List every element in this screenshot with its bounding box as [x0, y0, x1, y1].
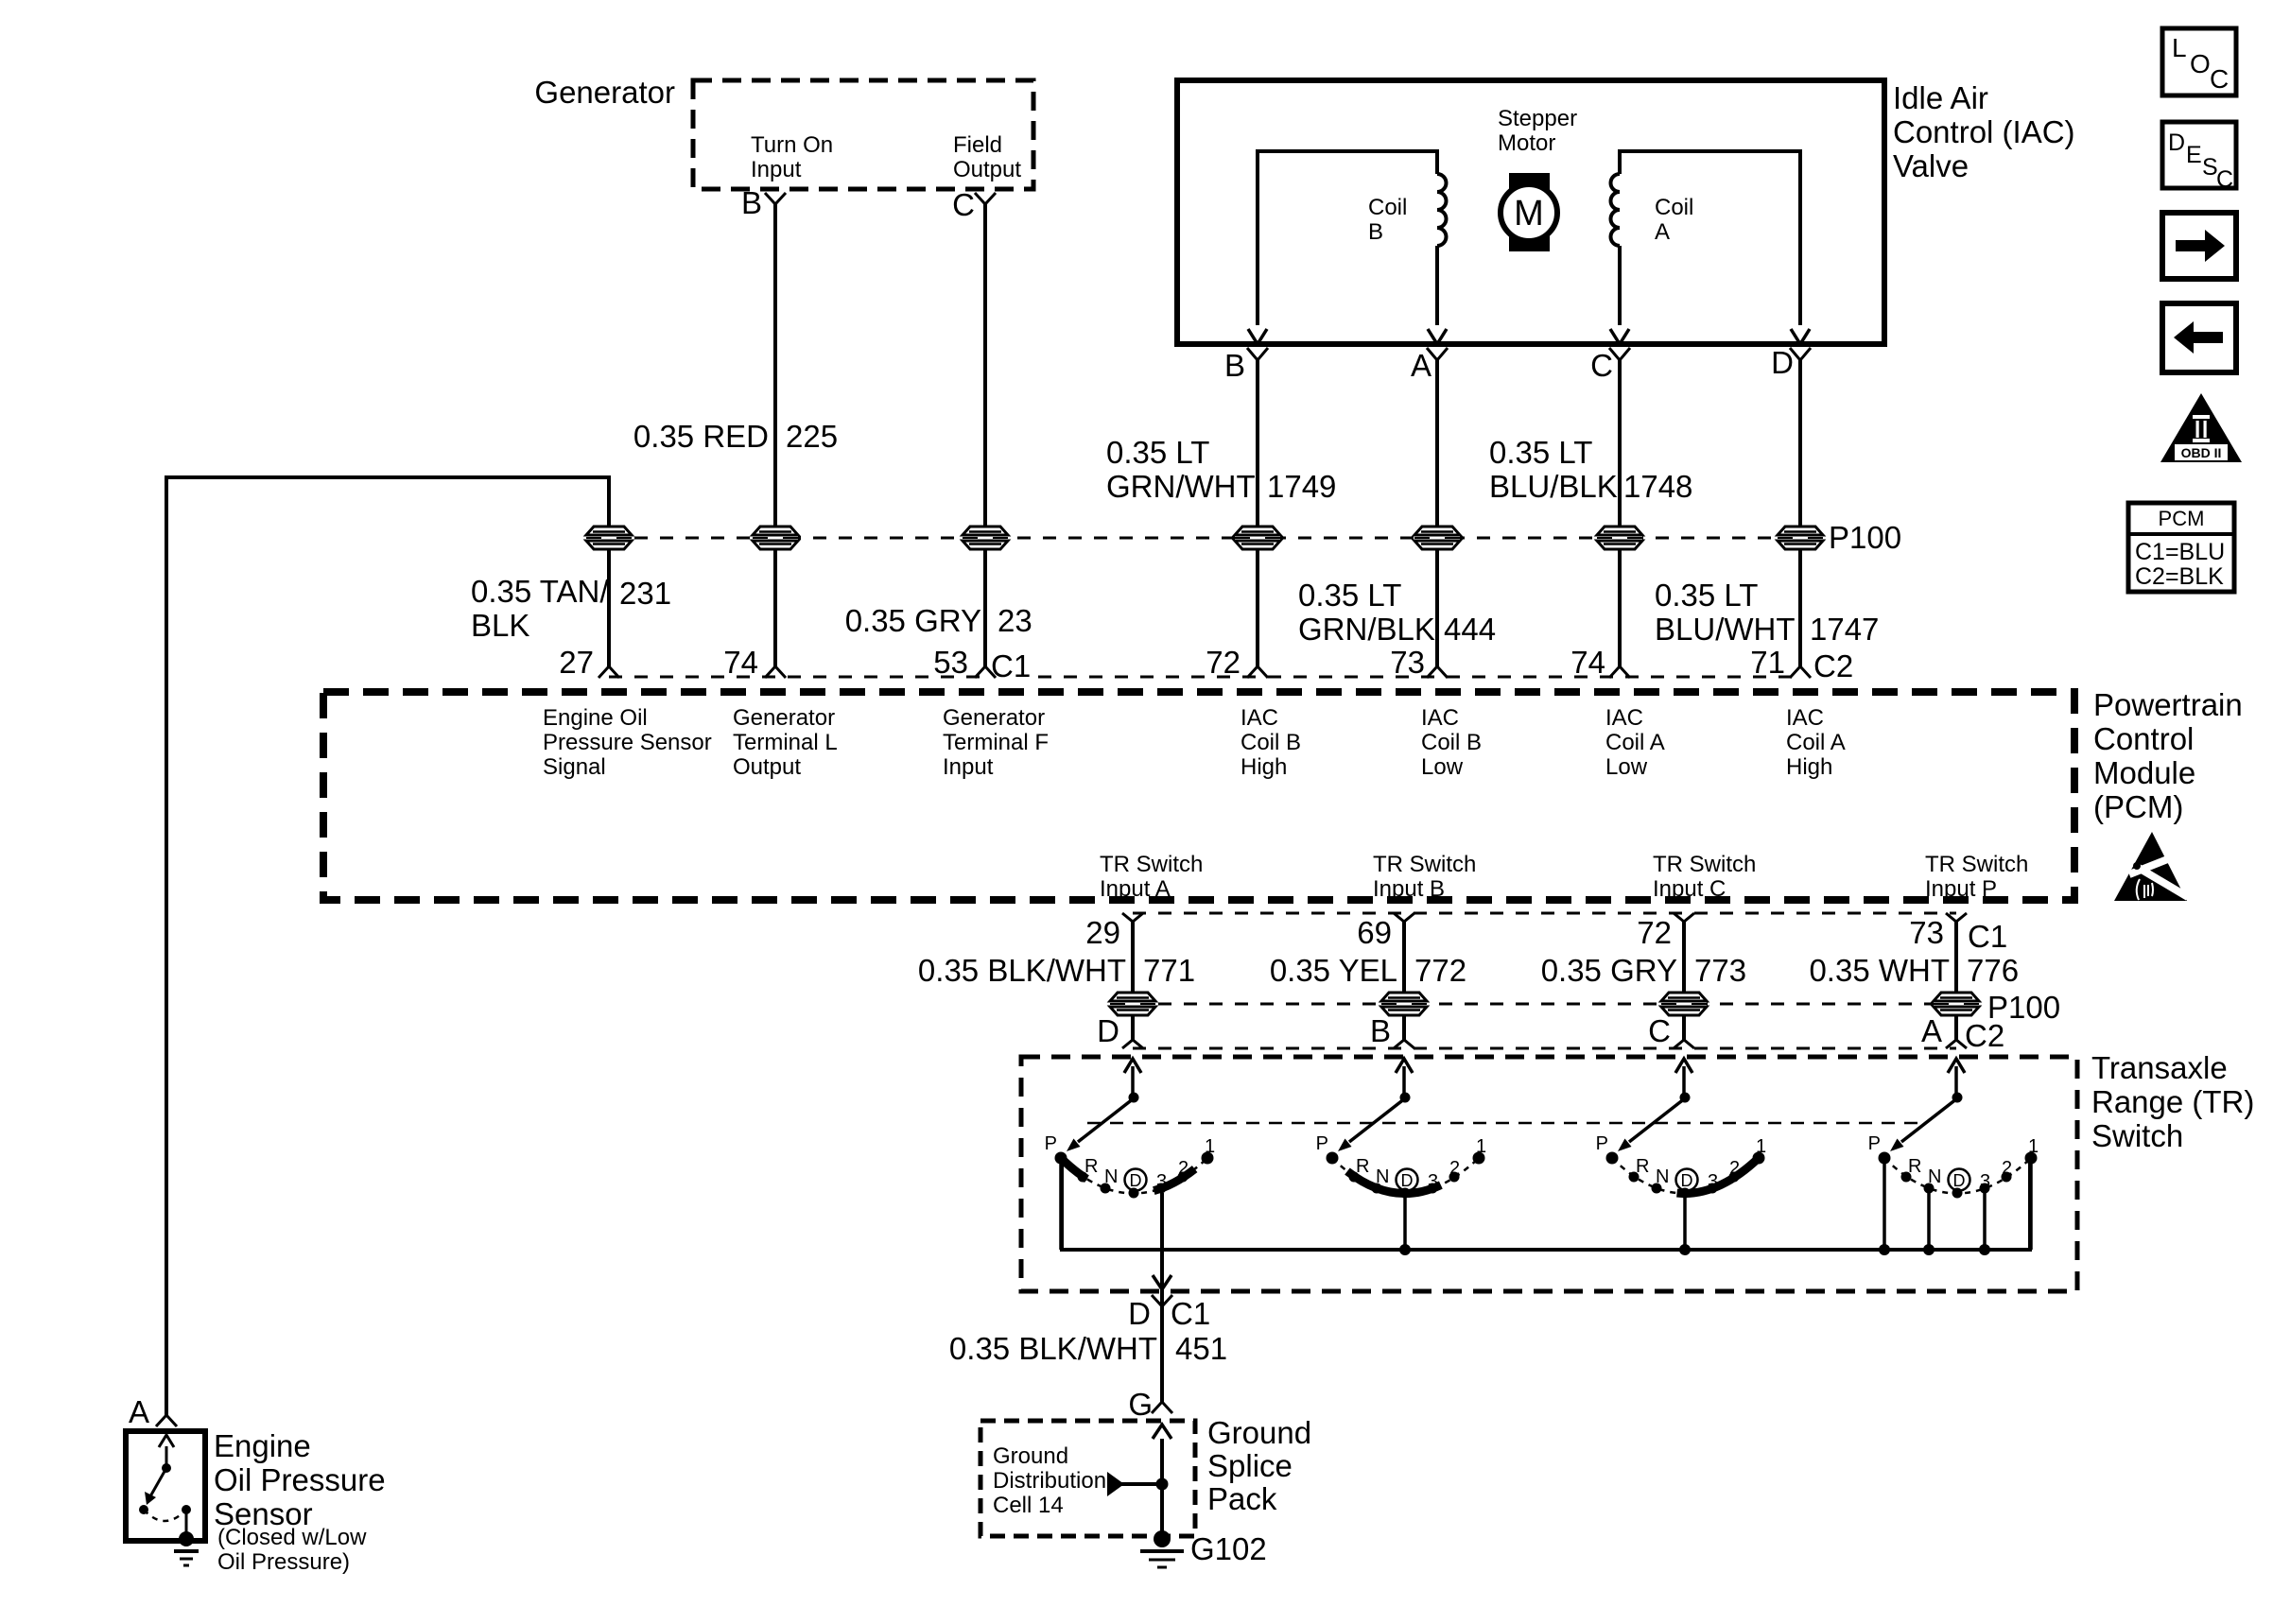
- TR rotary switch S3 (input C): contact arc: [1612, 1158, 1759, 1194]
- generator box: [693, 80, 1033, 189]
- svg-text:0.35 YEL: 0.35 YEL: [1270, 953, 1397, 988]
- svg-text:P: P: [1316, 1133, 1328, 1154]
- svg-text:D: D: [1128, 1296, 1151, 1331]
- svg-text:29: 29: [1085, 915, 1120, 950]
- TR rotary switch S2 (input B): contact arc: [1332, 1158, 1479, 1194]
- svg-text:0.35 LT: 0.35 LT: [1655, 578, 1758, 613]
- svg-text:C1: C1: [1171, 1296, 1210, 1331]
- svg-text:B: B: [1224, 348, 1245, 383]
- svg-text:1: 1: [1205, 1136, 1215, 1157]
- coil B winding: [1258, 151, 1437, 325]
- arrow into IAC pin C: [1610, 329, 1629, 344]
- svg-text:Input: Input: [751, 157, 802, 182]
- svg-text:444: 444: [1444, 612, 1496, 647]
- svg-text:Engine Oil: Engine Oil: [543, 705, 648, 731]
- svg-text:Powertrain: Powertrain: [2093, 687, 2243, 722]
- svg-text:TR Switch: TR Switch: [1925, 852, 2028, 877]
- svg-text:R: R: [1908, 1156, 1921, 1177]
- svg-text:Coil: Coil: [1655, 195, 1693, 220]
- svg-text:TR Switch: TR Switch: [1653, 852, 1756, 877]
- engine oil pressure sensor box: [126, 1431, 205, 1541]
- svg-text:0.35 LT: 0.35 LT: [1298, 578, 1401, 613]
- TR rotary switch S4 (input P): contact labels: [1868, 1133, 2039, 1192]
- inline connector P100 pin 74 wire: [753, 527, 798, 549]
- motor M1: [1501, 173, 1557, 251]
- svg-text:Oil Pressure: Oil Pressure: [214, 1462, 386, 1497]
- TR rotary switch S1 (input D): arm arrow: [1067, 1059, 1141, 1151]
- svg-text:GRN/WHT: GRN/WHT: [1106, 469, 1256, 504]
- icon LOC: [2162, 28, 2236, 95]
- svg-text:Motor: Motor: [1498, 130, 1555, 156]
- svg-text:E: E: [2186, 142, 2202, 168]
- svg-text:Low: Low: [1605, 754, 1648, 780]
- TR rotary switch S4 (input P): contact dots: [1879, 1152, 2038, 1199]
- inline connector P100 pin 27 wire: [586, 527, 632, 549]
- svg-text:D: D: [2168, 130, 2185, 156]
- TR rotary switch S2 (input B): contact labels: [1316, 1133, 1486, 1192]
- svg-text:23: 23: [998, 603, 1032, 638]
- TR rotary switch S1 (input D): contact dots: [1055, 1152, 1214, 1199]
- svg-text:B: B: [1368, 219, 1383, 245]
- svg-text:53: 53: [933, 645, 968, 680]
- svg-text:Engine: Engine: [214, 1428, 311, 1463]
- arrow into IAC pin B: [1248, 329, 1267, 344]
- svg-text:Terminal L: Terminal L: [733, 730, 838, 755]
- inline connector P100 776 wire: [1934, 993, 1979, 1015]
- PCM box: [323, 692, 2074, 900]
- wire D contact to bus: [1403, 1193, 1407, 1250]
- svg-text:Coil B: Coil B: [1241, 730, 1301, 755]
- wire TR A: [1131, 922, 1135, 1040]
- svg-text:Splice: Splice: [1207, 1448, 1293, 1483]
- svg-text:BLU/WHT: BLU/WHT: [1655, 612, 1796, 647]
- svg-text:225: 225: [786, 419, 838, 454]
- PCM C1 output connector line: [1133, 912, 1956, 915]
- inline connector P100 773 wire: [1661, 993, 1707, 1015]
- svg-text:Distribution: Distribution: [993, 1468, 1106, 1494]
- svg-text:2: 2: [1729, 1158, 1740, 1179]
- icon arrow left: [2162, 303, 2236, 372]
- svg-text:74: 74: [1570, 645, 1605, 680]
- svg-text:2: 2: [2002, 1158, 2012, 1179]
- svg-text:72: 72: [1637, 915, 1672, 950]
- svg-text:Coil A: Coil A: [1605, 730, 1665, 755]
- svg-text:73: 73: [1390, 645, 1425, 680]
- svg-text:Generator: Generator: [534, 75, 675, 110]
- coil A winding: [1620, 151, 1800, 325]
- svg-text:BLU/BLK: BLU/BLK: [1489, 469, 1618, 504]
- svg-text:BLK: BLK: [471, 608, 529, 643]
- EOP switch internals: [159, 1435, 174, 1447]
- svg-text:Field: Field: [953, 132, 1002, 158]
- svg-text:Input A: Input A: [1100, 876, 1171, 902]
- svg-text:Output: Output: [953, 157, 1021, 182]
- svg-text:0.35 LT: 0.35 LT: [1489, 435, 1592, 470]
- svg-text:Generator: Generator: [943, 705, 1045, 731]
- connector line P100 row2: [1133, 1003, 1956, 1006]
- svg-text:Generator: Generator: [733, 705, 835, 731]
- TR rotary switch S3 (input C): contact dots: [1606, 1152, 1765, 1199]
- svg-text:Input P: Input P: [1925, 876, 1997, 902]
- ground G102: [1154, 1530, 1171, 1547]
- svg-text:P: P: [1596, 1133, 1608, 1154]
- wire 1 contact to bus: [2029, 1158, 2033, 1250]
- svg-text:C: C: [952, 187, 975, 222]
- svg-text:3: 3: [1428, 1171, 1438, 1192]
- svg-text:Control: Control: [2093, 721, 2194, 756]
- TR output wire to ground: [1160, 1193, 1164, 1289]
- TR rotary switch S1 (input D): contact arc: [1061, 1158, 1207, 1194]
- svg-text:Pressure Sensor: Pressure Sensor: [543, 730, 712, 755]
- inline connector P100 pin 53 wire: [963, 527, 1008, 549]
- svg-text:Valve: Valve: [1893, 148, 1969, 183]
- svg-text:R: R: [1356, 1156, 1369, 1177]
- svg-text:C2: C2: [1813, 648, 1853, 683]
- svg-text:TR Switch: TR Switch: [1100, 852, 1203, 877]
- wire IAC D: [1798, 360, 1802, 666]
- svg-text:0.35 BLK/WHT: 0.35 BLK/WHT: [918, 953, 1126, 988]
- TR rotary switch S4 (input P): arm arrow: [1890, 1059, 1965, 1151]
- svg-text:73: 73: [1909, 915, 1944, 950]
- svg-text:Pack: Pack: [1207, 1481, 1277, 1516]
- svg-text:Turn On: Turn On: [751, 132, 833, 158]
- icon DESC: [2162, 122, 2236, 193]
- arrow into IAC pin D: [1791, 329, 1810, 344]
- wire generator C: [983, 204, 987, 666]
- wire IAC B: [1256, 360, 1259, 666]
- svg-text:Range (TR): Range (TR): [2091, 1084, 2254, 1119]
- svg-text:C1: C1: [1968, 919, 2007, 954]
- svg-text:M: M: [1514, 194, 1544, 233]
- svg-text:231: 231: [619, 576, 671, 611]
- svg-text:Idle Air: Idle Air: [1893, 80, 1988, 115]
- svg-text:Stepper: Stepper: [1498, 106, 1577, 131]
- svg-text:C2: C2: [1965, 1018, 2004, 1053]
- svg-text:Control (IAC): Control (IAC): [1893, 114, 2075, 149]
- svg-text:69: 69: [1357, 915, 1392, 950]
- wire generator B: [773, 204, 777, 666]
- svg-text:27: 27: [559, 645, 594, 680]
- TR mechanical link dashed line: [1087, 1122, 1921, 1125]
- inline connector P100 pin 71 wire: [1778, 527, 1823, 549]
- svg-text:C1: C1: [991, 648, 1031, 683]
- arrow out of TR box: [1153, 1275, 1171, 1289]
- PCM pin function labels: [543, 705, 2028, 902]
- svg-text:72: 72: [1206, 645, 1241, 680]
- wire TR C: [1682, 922, 1686, 1040]
- svg-text:2: 2: [1178, 1158, 1189, 1179]
- TR bus wire: [1062, 1158, 2030, 1250]
- svg-text:N: N: [1656, 1166, 1669, 1187]
- svg-text:771: 771: [1143, 953, 1195, 988]
- svg-text:1: 1: [1756, 1136, 1766, 1157]
- svg-text:1747: 1747: [1810, 612, 1879, 647]
- svg-text:2: 2: [1449, 1158, 1460, 1179]
- svg-text:N: N: [1376, 1166, 1389, 1187]
- svg-text:A: A: [1921, 1013, 1942, 1048]
- svg-text:N: N: [1928, 1166, 1941, 1187]
- svg-text:Cell 14: Cell 14: [993, 1493, 1064, 1518]
- svg-text:0.35 GRY: 0.35 GRY: [1541, 953, 1677, 988]
- inline connector P100 771 wire: [1110, 993, 1155, 1015]
- svg-text:Input: Input: [943, 754, 994, 780]
- svg-text:0.35 TAN/: 0.35 TAN/: [471, 574, 609, 609]
- svg-text:Coil B: Coil B: [1421, 730, 1482, 755]
- svg-text:TR Switch: TR Switch: [1373, 852, 1476, 877]
- svg-text:IAC: IAC: [1421, 705, 1459, 731]
- svg-text:Input B: Input B: [1373, 876, 1445, 902]
- inline connector P100 772 wire: [1381, 993, 1427, 1015]
- PCM legend box: [2128, 503, 2234, 592]
- svg-text:PCM: PCM: [2159, 507, 2205, 530]
- TR switch box: [1021, 1057, 2077, 1291]
- inline connector P100 pin 73 wire: [1414, 527, 1460, 549]
- wire 3 contact to bus: [1983, 1188, 1987, 1250]
- svg-text:0.35 RED: 0.35 RED: [633, 419, 769, 454]
- svg-text:451: 451: [1175, 1331, 1227, 1366]
- svg-text:B: B: [741, 185, 762, 220]
- svg-text:D: D: [1681, 1171, 1693, 1190]
- svg-text:N: N: [1104, 1166, 1118, 1187]
- svg-text:G: G: [1128, 1387, 1153, 1422]
- wire N contact to bus: [1927, 1188, 1931, 1250]
- svg-text:A: A: [1655, 219, 1670, 245]
- svg-text:C: C: [2210, 64, 2229, 94]
- svg-text:GRN/BLK: GRN/BLK: [1298, 612, 1435, 647]
- svg-text:Ground: Ground: [1207, 1415, 1311, 1450]
- svg-text:R: R: [1636, 1156, 1649, 1177]
- svg-text:Coil: Coil: [1368, 195, 1407, 220]
- svg-text:Ground: Ground: [993, 1443, 1068, 1469]
- svg-text:0.35 BLK/WHT: 0.35 BLK/WHT: [949, 1331, 1157, 1366]
- svg-text:3: 3: [1708, 1171, 1718, 1192]
- connector line P100 row1: [609, 537, 1800, 540]
- svg-text:0.35 LT: 0.35 LT: [1106, 435, 1209, 470]
- svg-text:OBD II: OBD II: [2181, 445, 2222, 460]
- svg-text:0.35 GRY: 0.35 GRY: [845, 603, 981, 638]
- svg-text:1748: 1748: [1623, 469, 1692, 504]
- svg-text:1749: 1749: [1267, 469, 1336, 504]
- TR rotary switch S2 (input B): contact dots: [1327, 1152, 1485, 1199]
- svg-text:Signal: Signal: [543, 754, 606, 780]
- svg-text:D: D: [1097, 1013, 1119, 1048]
- svg-text:Coil A: Coil A: [1786, 730, 1846, 755]
- TR rotary switch S2 (input B): arm arrow: [1338, 1059, 1413, 1151]
- wire P contact to bus: [1059, 1158, 1063, 1250]
- wire D contact to bus: [1683, 1193, 1687, 1250]
- wire P contact to bus: [1883, 1158, 1886, 1250]
- PCM C1/C2 connector line: [609, 676, 983, 679]
- svg-text:C: C: [2216, 166, 2233, 193]
- svg-text:71: 71: [1750, 645, 1785, 680]
- svg-text:P: P: [1045, 1133, 1057, 1154]
- TR rotary switch S3 (input C): contact labels: [1596, 1133, 1766, 1192]
- svg-text:Oil Pressure): Oil Pressure): [217, 1549, 350, 1575]
- svg-text:IAC: IAC: [1605, 705, 1643, 731]
- TR rotary switch S4 (input P): contact arc: [1884, 1158, 2031, 1194]
- arrow up inside splice pack: [1153, 1425, 1171, 1439]
- svg-text:1: 1: [2028, 1136, 2039, 1157]
- svg-text:C: C: [1590, 348, 1613, 383]
- svg-text:Low: Low: [1421, 754, 1464, 780]
- svg-text:IAC: IAC: [1241, 705, 1278, 731]
- svg-text:High: High: [1786, 754, 1832, 780]
- svg-text:A: A: [1411, 348, 1431, 383]
- svg-text:Input C: Input C: [1653, 876, 1726, 902]
- svg-text:B: B: [1370, 1013, 1391, 1048]
- ESD symbol: [2114, 832, 2188, 901]
- svg-text:A: A: [129, 1394, 149, 1429]
- svg-text:Output: Output: [733, 754, 801, 780]
- ground distribution triangle: [1107, 1472, 1124, 1496]
- svg-text:C2=BLK: C2=BLK: [2135, 563, 2224, 590]
- svg-text:IAC: IAC: [1786, 705, 1824, 731]
- icon arrow right: [2162, 213, 2236, 279]
- svg-text:D: D: [1953, 1171, 1966, 1190]
- svg-text:74: 74: [723, 645, 758, 680]
- svg-text:776: 776: [1967, 953, 2019, 988]
- svg-text:0.35 WHT: 0.35 WHT: [1809, 953, 1950, 988]
- wire EOP signal horizontal: [166, 477, 609, 1415]
- svg-text:L: L: [2172, 33, 2187, 62]
- TR rotary switch S1 (input D): contact labels: [1045, 1133, 1215, 1192]
- svg-text:O: O: [2190, 49, 2211, 78]
- wire IAC A: [1435, 360, 1439, 666]
- icon OBD II triangle: [2160, 393, 2242, 462]
- svg-text:3: 3: [1156, 1171, 1167, 1192]
- junction dot: [1156, 1478, 1169, 1491]
- svg-text:P: P: [1868, 1133, 1881, 1154]
- svg-text:772: 772: [1414, 953, 1466, 988]
- svg-text:C: C: [1648, 1013, 1671, 1048]
- svg-text:Switch: Switch: [2091, 1118, 2183, 1153]
- IAC valve box: [1177, 80, 1884, 344]
- svg-text:Module: Module: [2093, 755, 2195, 790]
- svg-text:R: R: [1084, 1156, 1098, 1177]
- wire IAC C: [1618, 360, 1622, 666]
- inline connector P100 pin 72 wire: [1235, 527, 1280, 549]
- svg-text:C1=BLU: C1=BLU: [2135, 539, 2225, 565]
- wire TR B: [1402, 922, 1406, 1040]
- svg-text:G102: G102: [1190, 1531, 1267, 1566]
- arrow into IAC pin A: [1428, 329, 1447, 344]
- svg-text:Transaxle: Transaxle: [2091, 1050, 2228, 1085]
- svg-text:D: D: [1130, 1171, 1142, 1190]
- svg-text:1: 1: [1476, 1136, 1486, 1157]
- TR C2 connector line: [1133, 1047, 1956, 1050]
- svg-text:(Closed w/Low: (Closed w/Low: [217, 1525, 367, 1550]
- ground splice pack box: [980, 1421, 1195, 1536]
- svg-text:P100: P100: [1829, 520, 1901, 555]
- inline connector P100 pin 74b wire: [1597, 527, 1642, 549]
- svg-text:High: High: [1241, 754, 1287, 780]
- svg-text:773: 773: [1694, 953, 1746, 988]
- svg-text:(PCM): (PCM): [2093, 789, 2183, 824]
- svg-text:Terminal F: Terminal F: [943, 730, 1049, 755]
- wire TR P: [1954, 922, 1958, 1040]
- TR rotary switch S3 (input C): arm arrow: [1618, 1059, 1692, 1151]
- svg-text:D: D: [1401, 1171, 1414, 1190]
